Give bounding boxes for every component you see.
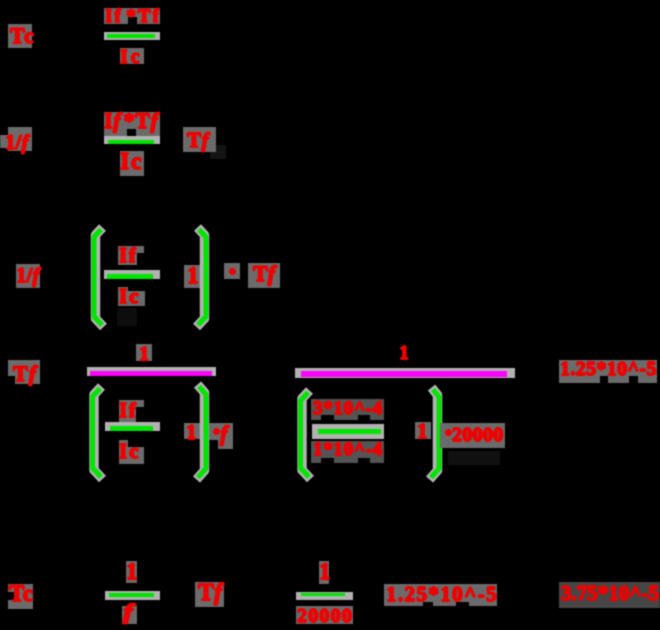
ghost mark below row3 Ic [117,308,137,326]
row3: operator * [224,263,240,279]
row4: token Tf (left label) [8,360,40,384]
row5 group2: nested fraction bar [312,424,384,439]
row4: first magenta fraction bar [87,367,216,376]
row1: denominator token Ic [120,48,144,64]
ghost operator after row2 Tf [210,145,226,159]
row2: token 1/f (left label) [0,135,8,148]
row6: token Tc (left label) [8,584,33,609]
row6: fraction bar of 1/f [105,591,160,600]
row4: second magenta fraction bar [295,368,515,378]
row1: token Tc (left label) [8,24,32,48]
row5 group2: numerator token 3*10^-4 [311,399,384,420]
row4: result token 1.25*10^-5 [559,360,657,383]
row3: nested numerator token If [118,246,137,265]
row5 group1: token 1 [184,423,200,439]
row5 group1: operator *f [209,423,233,440]
row5 group1: denominator token Ic [119,440,128,464]
row6: token 1.25*10^-5 [384,584,497,606]
row6: denominator token 20000 [296,606,353,624]
row2: denominator token Ic [120,151,144,176]
row6: numerator 1 of 1/20000 [319,561,329,584]
row2: token Tf (right) [183,127,216,152]
row4: numerator 1 of first big fraction [136,344,152,361]
row3: nested denominator token Ic [118,287,128,306]
row6: fraction bar of 1/20000 [296,592,353,600]
row2: numerator token If*Tf [104,112,160,136]
row2: fraction bar [104,136,160,144]
row5 group1: nested fraction bar [105,422,160,431]
row1: numerator token If*Tf [104,8,160,24]
row6: numerator 1 of 1/f [126,561,137,583]
row5 group2: token 1 [415,422,431,439]
row5 group2: faint ghost text below [448,451,500,465]
row3: nested fraction bar [104,270,160,279]
row3: token 1/f (left label) [16,264,40,288]
row1: fraction bar [104,32,160,40]
row3: token 1 [184,265,202,288]
row5 group2: operator *20000 [440,423,505,448]
row3: token Tf [248,263,280,288]
row5 group2: denominator token 1*10^-4 [311,441,384,463]
row6: token Tf [195,582,224,607]
row5 group1: numerator token If [119,400,136,423]
row6: denominator f of 1/f [122,606,137,624]
row6: result token 3.75*10^-5 [559,582,660,608]
row4: numerator 1 of second big fraction [399,343,409,363]
